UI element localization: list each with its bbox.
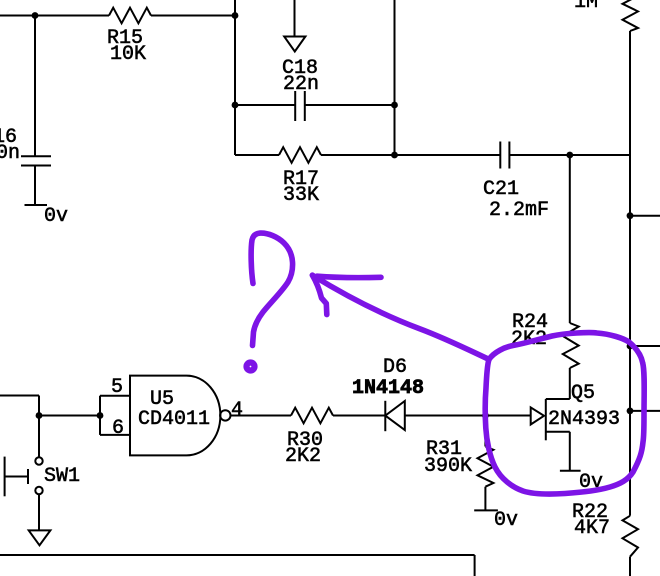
wire: left rail x=235 vertical [234, 0, 236, 155]
resistor R15 [109, 8, 151, 24]
svg-text:22n: 22n [283, 73, 319, 96]
node: junction (394.5,155) [391, 152, 398, 159]
ground bar (C16) [25, 204, 48, 206]
wire: right rail x=630 vertical [629, 31, 631, 516]
svg-text:1M: 1M [574, 0, 598, 14]
capacitor C18 [294, 91, 296, 121]
svg-text:2.2mF: 2.2mF [489, 199, 549, 222]
svg-text:Q5: Q5 [571, 382, 595, 405]
svg-text:CD4011: CD4011 [138, 408, 210, 431]
annotation: arrow shaft [312, 275, 489, 359]
svg-text:5: 5 [111, 376, 123, 399]
wire: R31 to ground [484, 487, 486, 511]
annotation: arrow barb lower [312, 275, 326, 314]
node: junction (630,346) [627, 343, 634, 350]
wire: R30 to D6 [333, 415, 385, 417]
annotation: circle around Q5 [485, 333, 644, 494]
wire: horizontal net y=155 (R17/C21 row) [235, 154, 279, 156]
node: junction (569.8,155) [566, 152, 573, 159]
annotation: question mark stroke [251, 233, 292, 345]
wire: R24 to Q5 drain [569, 368, 571, 399]
node: junction (39,415.5) [36, 412, 43, 419]
ground bar (R31) [474, 509, 498, 511]
wire: SW1 to ground triangle [38, 494, 40, 530]
node: junction (630,410.9) [627, 408, 634, 415]
wire: vertical from junction down to C16 [34, 16, 36, 157]
capacitor C21 [499, 142, 501, 169]
transistor Q5 (2N4393 JFET) [545, 399, 547, 440]
switch SW1 actuator [27, 469, 29, 484]
resistor R17 [279, 147, 321, 163]
wire: horizontal net y=105 [235, 104, 295, 106]
wire: mid rail x=394.5 vertical [394, 0, 396, 155]
PURPLE ANNOTATION [247, 233, 645, 494]
ground bar (Q5 source) [560, 470, 581, 472]
node: junction (235,105) [232, 102, 239, 109]
output bubble U5 [220, 410, 230, 420]
wire: box top edge (bottom block) [0, 554, 475, 556]
wire: box right edge [474, 555, 476, 576]
svg-text:4K7: 4K7 [574, 517, 610, 540]
wire: C21 to right rail [509, 154, 630, 156]
diode D6 [384, 401, 386, 431]
wire: C16 to ground [34, 166, 36, 206]
op-amp U5 NAND gate body [130, 376, 220, 456]
svg-text:0v: 0v [494, 509, 518, 532]
wire: left net into SW1 area y=395.5 [0, 395, 39, 397]
resistor R30 [291, 408, 333, 424]
svg-text:10K: 10K [110, 43, 146, 66]
resistor 1M (top right, cut at top) [623, 0, 639, 31]
svg-text:4: 4 [231, 399, 243, 422]
annotation: question mark dot [247, 363, 255, 371]
wire: gate input connector vertical [99, 396, 101, 435]
svg-text:SW1: SW1 [44, 465, 80, 488]
wire: branch to right edge y=346 [630, 345, 660, 347]
svg-text:1N4148: 1N4148 [352, 377, 424, 400]
svg-text:2N4393: 2N4393 [548, 408, 620, 431]
node: junction (235,15.5) [232, 12, 239, 19]
node: junction at x35 top wire [32, 12, 39, 19]
wire: rail below R22 [629, 557, 631, 576]
wire: branch to right edge y=410.9 [630, 410, 660, 412]
ground triangle (SW1) [29, 530, 51, 545]
svg-text:C21: C21 [483, 178, 519, 201]
switch SW1 contact circles [35, 457, 42, 464]
node: junction (630,215.7) [627, 212, 634, 219]
wire: junction down to R31 [484, 416, 486, 447]
svg-text:2K2: 2K2 [285, 445, 321, 468]
wire: branch to right edge y=215.7 [630, 215, 660, 217]
off-page connector arrow (down) [294, 0, 296, 36]
node: junction (485.4,415.5) [482, 412, 489, 419]
node: junction (100,415.5) [97, 412, 104, 419]
svg-text:6: 6 [112, 417, 124, 440]
svg-text:33K: 33K [283, 184, 319, 207]
capacitor C16 (partially cut at left edge) [21, 155, 51, 157]
wire: Q5 source down to ground [569, 432, 571, 471]
wire: junction to gate inputs [39, 415, 100, 417]
annotation: arrow barb upper [317, 276, 381, 277]
wire: from C21 junction down to R24 [569, 155, 571, 323]
node: junction (394.5,105) [391, 102, 398, 109]
resistor R31 [478, 447, 494, 487]
svg-text:D6: D6 [383, 356, 407, 379]
wire: pin 5 stub [100, 395, 130, 397]
wire: U5 output to R30 [231, 415, 292, 417]
wire: D6 to R31 junction to Q5 gate [405, 415, 531, 417]
wire: pin 6 stub [100, 434, 130, 436]
resistor R24 [563, 323, 579, 368]
svg-text:0v: 0v [44, 205, 68, 228]
wire: top-left horizontal net [0, 15, 109, 17]
svg-text:0n: 0n [0, 142, 20, 165]
resistor R22 [623, 516, 639, 557]
svg-text:390K: 390K [424, 455, 472, 478]
